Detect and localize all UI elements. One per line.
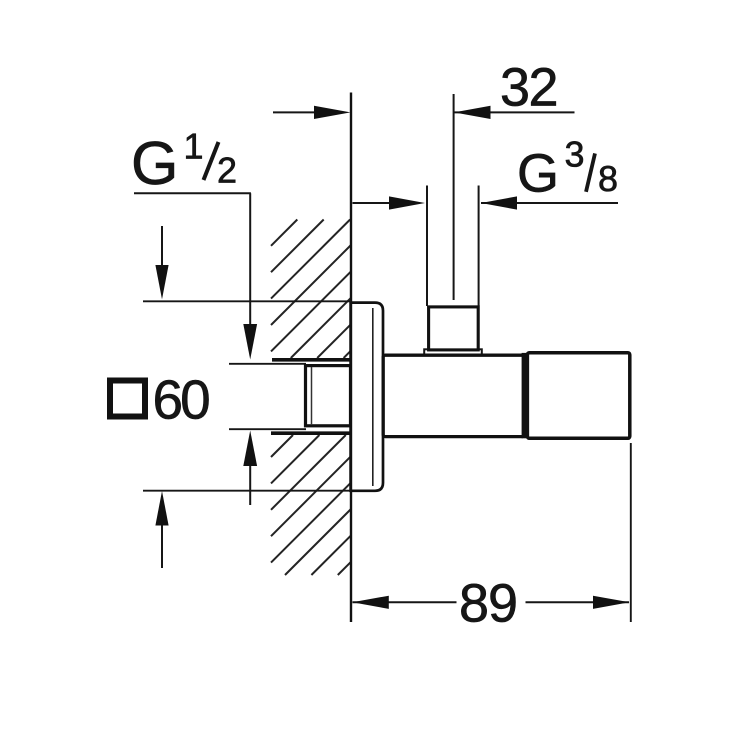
svg-text:2: 2 <box>217 150 237 191</box>
svg-text:32: 32 <box>500 58 557 118</box>
svg-text:G: G <box>517 144 559 204</box>
svg-text:1: 1 <box>184 126 204 167</box>
svg-text:3: 3 <box>565 134 585 175</box>
svg-text:89: 89 <box>459 574 517 634</box>
svg-text:60: 60 <box>153 369 210 431</box>
svg-text:8: 8 <box>598 158 618 199</box>
svg-text:G: G <box>131 129 178 197</box>
